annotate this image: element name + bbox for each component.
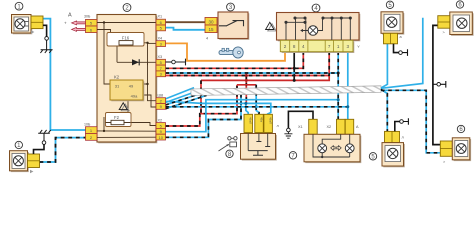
svg-text:v: v — [358, 44, 360, 49]
svg-text:4: 4 — [206, 37, 208, 41]
wire: blue X1-5 to ignition 15 — [166, 28, 206, 30]
stalk switch 8: connector cells — [244, 114, 272, 132]
svg-text:49: 49 — [129, 84, 134, 89]
power arrow 2 to block pin — [72, 27, 86, 31]
svg-text:49аП: 49аП — [268, 117, 272, 124]
svg-text:1: 1 — [337, 44, 340, 49]
lamp 1 front-left: ground wire and chassis ground — [40, 25, 52, 53]
wire: harness fan dashed upper from block pin 9 — [166, 93, 203, 105]
front-right lamp ground (inverted) — [34, 130, 51, 154]
hazard switch contacts row 1 right — [322, 17, 352, 19]
svg-text:+: + — [64, 20, 67, 25]
svg-text:X1: X1 — [298, 125, 303, 129]
rear lamp 5 top: ground wire with bolt contact — [394, 44, 408, 56]
rear lamp 5 bottom: ground wire with bolt contact — [395, 118, 409, 131]
block left pin Sh5-2 — [86, 26, 98, 33]
lamp 1 front-left: connector — [31, 16, 43, 29]
ignition switch 3: body with contact — [218, 12, 249, 40]
junction dot blue on vertical left-turn net — [337, 98, 340, 101]
svg-text:4: 4 — [302, 44, 305, 49]
wire: blue-black dashed from front-right lamp 1 (bottom) to block pin — [40, 138, 86, 162]
relay K2 — [110, 75, 144, 102]
svg-text:15: 15 — [208, 27, 214, 32]
front-right lamp 1 bottom: label circle — [15, 141, 22, 149]
plug symbol on X3-5 wire — [166, 59, 186, 66]
svg-text:49а: 49а — [131, 94, 138, 99]
ignition switch 3: label circle — [227, 3, 235, 11]
svg-text:49аЛ: 49аЛ — [249, 117, 253, 124]
instrument cluster 7: X1 connector — [298, 119, 317, 134]
instrument cluster 7: X2 connector — [327, 119, 354, 134]
wire: red-black dashed X3-7 to hazard pin 4 — [166, 52, 304, 69]
stalk switch pictogram — [219, 137, 238, 151]
svg-text:X2: X2 — [327, 125, 332, 129]
wire: blue from rear-left lamp 5 top into band right end — [381, 44, 387, 88]
marker arrow below lamp 1 bottom — [30, 170, 33, 173]
block internal wiring — [97, 23, 156, 138]
wire: black from side repeater 6 top down to repeater 6 bottom — [433, 25, 440, 144]
hazard switch contacts row 2 — [285, 21, 306, 23]
wire: brown X1-6 to ignition 30 — [166, 21, 206, 23]
hazard switch contacts row 1 left — [294, 17, 306, 19]
stalk switch 8: body — [241, 134, 277, 161]
svg-text:30: 30 — [208, 19, 214, 24]
node A label and plus — [64, 13, 72, 26]
hazard switch 4: label circle — [312, 4, 320, 12]
wire: blue-black dashed from block pin 9 to cluster X2 right junction — [166, 106, 348, 108]
wire: blue solid from block pin 2 to stalk switch cell 3 — [166, 101, 271, 116]
rear lamp 5 top: housing — [381, 12, 404, 35]
wire: blue-black dashed staircase from block X2 pin 10 up into band — [166, 89, 242, 138]
marker arrow below connector — [31, 30, 34, 33]
svg-text:10: 10 — [158, 135, 163, 140]
ignition key symbol — [219, 47, 243, 58]
instrument cluster 7: label circle — [289, 152, 296, 160]
hazard switch 4: body — [277, 13, 361, 42]
power arrow 1 to block pin — [72, 21, 86, 25]
hazard warning triangle symbol — [266, 22, 277, 31]
svg-text:л: л — [277, 124, 279, 128]
block left pin Sh5-1 — [86, 19, 98, 26]
block left bottom pin 1 — [86, 127, 98, 134]
svg-text:K2: K2 — [114, 75, 120, 80]
wire: red-black link down to staircase level — [200, 80, 202, 113]
hazard switch internal drop lines — [286, 18, 350, 40]
wire: harness fan dashed lower from block pin 9 — [166, 95, 207, 108]
wire: blue-black dashed vertical to stalk switch cell 2 — [255, 85, 259, 117]
rear lamp 5 top: label circle — [386, 1, 393, 9]
block right connector X2 — [156, 118, 166, 140]
junction dot dashed line on hazard pin3 vertical — [346, 105, 349, 108]
lamp 1 front-left: housing — [12, 15, 33, 35]
block right connector X3 — [156, 55, 166, 77]
front-right lamp 1 bottom: connector — [28, 154, 40, 168]
block internal junction dots — [103, 21, 149, 132]
wire: blue-black dashed vertical from hazard pin 1 down through band to cluster X2 left — [337, 52, 339, 120]
wire: harness fan blue lower from block pin 2 — [166, 91, 199, 103]
wire: blue solid from hazard pin 3 down to cluster X2 right — [347, 52, 349, 120]
svg-text:X2: X2 — [158, 118, 163, 122]
stalk switch 8: label circle — [226, 150, 233, 158]
wire: harness fan blue upper from block pin 2 — [166, 88, 195, 99]
svg-text:30Б: 30Б — [84, 15, 91, 19]
wire: red line hazard pin8 net going left — [201, 76, 329, 80]
block right connector X4 — [156, 36, 166, 46]
block right connector Sh8 — [156, 93, 166, 109]
hazard switch pilot lamp — [300, 18, 322, 35]
instrument cluster 7: ground wire from X1 — [284, 111, 313, 138]
cluster left turn indicator lamp — [318, 144, 327, 153]
svg-text:X1: X1 — [158, 15, 163, 19]
wire: blue branch down to stalk switch cell 1 — [246, 103, 248, 116]
wire: short red link line — [237, 84, 256, 86]
svg-text:F2: F2 — [114, 115, 120, 120]
front-right lamp 1 bottom: housing — [10, 151, 29, 172]
wire: blue-black dashed from band to rear lamp 5 bottom — [381, 89, 387, 131]
svg-text:3: 3 — [347, 44, 350, 49]
diode inside block — [132, 59, 139, 65]
side repeater 6 bottom: housing — [452, 138, 471, 161]
wire: blue-black dashed from band to side repeater 6 bottom — [381, 90, 440, 153]
block right connector X1 — [156, 15, 166, 31]
svg-text:8: 8 — [293, 44, 296, 49]
rear lamp 5 bottom: label circle — [369, 153, 376, 161]
svg-text:2: 2 — [284, 44, 287, 49]
wire: red-black dashed staircase from block X2 pin 5 up across band — [166, 85, 238, 126]
svg-text:49а: 49а — [259, 117, 263, 122]
svg-text:A: A — [68, 13, 72, 19]
block left bottom pin 2 — [86, 134, 98, 141]
cluster right turn indicator lamp — [345, 144, 354, 153]
side repeater 6 top: connector — [438, 16, 450, 29]
lamp 1 front-left: label circle — [15, 2, 23, 10]
svg-text:10Б: 10Б — [84, 123, 91, 127]
side repeater 6 top: housing — [450, 12, 474, 36]
mounting block 2: label circle — [123, 4, 131, 12]
junction dot hazard pin8 wire over red-black line — [293, 67, 296, 70]
wire: orange X4-3 to hazard pin 2 — [166, 43, 286, 60]
junction dot red line on blue-red vertical — [245, 79, 248, 82]
svg-text:X4: X4 — [158, 36, 163, 40]
svg-text:л: л — [402, 136, 404, 140]
side repeater 6 bottom: connector — [440, 141, 452, 156]
fuse F2 — [106, 113, 132, 127]
ground bolt tap of black wire — [433, 81, 446, 88]
cluster arrows — [331, 146, 342, 151]
wire: blue from front-left lamp 1 to block pin, runs down left side — [43, 19, 86, 130]
svg-text:F16: F16 — [122, 36, 130, 41]
rear lamp 5 bottom: connector — [385, 131, 400, 142]
svg-text:Ш8: Ш8 — [158, 93, 164, 97]
wire: blue-red dashed from hazard pin 7 left then down to stalk switch cell 1 — [166, 52, 330, 104]
wire: black from hazard pin 8 down to red line — [293, 52, 295, 81]
wire: blue solid from block X2 pin 9 staircase to cluster X2 left junction — [166, 100, 339, 132]
side repeater 6 bottom: label circle — [457, 125, 464, 133]
wire: blue-black dashed X3-3 to hazard pin 1 via vertical — [166, 72, 339, 74]
svg-text:31: 31 — [115, 84, 120, 89]
wire: blue from side repeater 6 top into band right end — [381, 18, 423, 89]
SECTION: components — [10, 1, 474, 173]
hazard switch connector strip — [280, 40, 354, 53]
SECTION: wires — [40, 18, 446, 162]
junction dot X3-3 line on vertical — [337, 72, 340, 75]
instrument cluster 7: body — [304, 134, 361, 163]
ignition switch 3: pins 30 and 15 — [205, 17, 217, 32]
hazard triangle symbol inside block — [119, 103, 129, 111]
rear lamp 5 bottom: housing — [382, 143, 405, 168]
rear lamp 5 top: connector — [384, 33, 398, 44]
harness band (hatched sheath) to rear of car — [191, 86, 381, 96]
svg-text:X3: X3 — [158, 55, 163, 59]
mounting block 2: body — [97, 15, 157, 144]
side repeater 6 top: label circle — [456, 1, 463, 9]
fuse F16 — [107, 33, 144, 47]
svg-text:7: 7 — [328, 44, 331, 49]
